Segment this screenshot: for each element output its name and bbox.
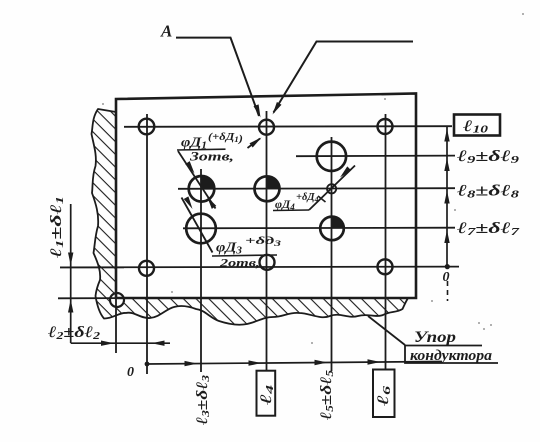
- column line C4 x=331.5: [331, 137, 333, 371]
- right dim line: [446, 127, 448, 267]
- left edge extension: [115, 298, 117, 353]
- callout D4 text: [273, 192, 319, 212]
- bushing hole B1 (D1): [189, 176, 215, 202]
- upor leader: [368, 316, 405, 345]
- svg-text:ℓ7±δℓ7: ℓ7±δℓ7: [456, 220, 520, 238]
- leader A: [176, 38, 259, 116]
- callout D3 text: [212, 235, 281, 270]
- callout D1 text: [177, 131, 243, 164]
- row line R2 (hole D y=156): [296, 155, 455, 158]
- label l5 (rotated): [318, 369, 336, 421]
- base line extension left: [58, 297, 116, 299]
- row line R3 (y=188.5): [178, 187, 455, 190]
- hole bottom-right: [378, 259, 393, 274]
- corner relief hole: [110, 293, 124, 307]
- column line C3 x=266.5: [266, 111, 268, 370]
- svg-text:A: A: [160, 22, 172, 41]
- hole bottom-left: [139, 261, 154, 276]
- leader right: [274, 42, 414, 113]
- row line R1 (top holes y=126.5): [124, 125, 452, 128]
- svg-text:0: 0: [127, 365, 134, 380]
- svg-text:ℓ2±δℓ2: ℓ2±δℓ2: [47, 324, 101, 342]
- row line R5 (bottom holes y=267): [60, 266, 459, 269]
- bottom dim line: [147, 362, 443, 365]
- right dim arrow: [444, 158, 449, 171]
- bushing hole B3 (D1): [320, 217, 344, 241]
- row line R4 (y=228): [183, 227, 455, 230]
- bottom origin dot: [145, 362, 150, 367]
- origin dot right: [445, 264, 450, 269]
- callout D3 leader: [182, 198, 213, 253]
- bottom arrow to C2: [185, 361, 198, 366]
- small arrow below datum hole: [248, 139, 261, 149]
- svg-text:кондуктора: кондуктора: [410, 348, 493, 364]
- l2 dim line: [71, 342, 170, 344]
- upor bracket: [405, 346, 498, 364]
- svg-text:ℓ1±δℓ1: ℓ1±δℓ1: [48, 196, 66, 259]
- upor text: [410, 329, 493, 364]
- hole bottom-middle: [260, 255, 275, 270]
- right dim arrow: [444, 230, 449, 243]
- l2 arrow right: [101, 341, 114, 346]
- label l2: [47, 324, 101, 342]
- l1 row extension: [60, 266, 124, 268]
- bottom arrow to C3: [249, 360, 262, 365]
- l1 dim line: [70, 204, 72, 343]
- bushing hole B2 (D1): [255, 176, 280, 201]
- l10 box: [454, 115, 500, 136]
- bottom arrow to C5: [368, 359, 381, 364]
- svg-text:ℓ9±δℓ9: ℓ9±δℓ9: [456, 148, 520, 166]
- l6 box: [373, 370, 395, 418]
- svg-text:Упор: Упор: [414, 329, 456, 346]
- small hole S4 (D4): [327, 184, 336, 193]
- large hole G1 (D3): [186, 214, 216, 244]
- l1 arrow down: [68, 253, 73, 266]
- hole top-middle (datum A): [259, 120, 274, 135]
- column line C2 x=201: [200, 169, 202, 372]
- column line C5 x=385.5: [385, 114, 387, 370]
- svg-text:ℓ3±δℓ3: ℓ3±δℓ3: [194, 374, 212, 426]
- l1 arrow up: [68, 300, 73, 313]
- hole top-right: [378, 119, 393, 134]
- jig plate outline: [116, 94, 416, 299]
- svg-text:3отв,: 3отв,: [189, 150, 234, 164]
- hole top-left: [139, 119, 155, 135]
- label l1 (rotated): [48, 196, 66, 259]
- right dim dashed continuation: [447, 281, 449, 301]
- scan speckles: [102, 103, 104, 105]
- hatched stop surfaces (L-shaped: left band + bottom band): [92, 109, 409, 325]
- svg-text:2отв,: 2отв,: [219, 256, 260, 270]
- column line C1 x=147: [146, 114, 148, 374]
- bottom arrow to C4: [315, 360, 328, 365]
- label l3 (rotated): [194, 374, 212, 426]
- large hole G2 (row2): [317, 142, 346, 171]
- right dim arrow: [444, 191, 449, 204]
- svg-text:0: 0: [443, 270, 450, 285]
- callout D1 leader: [178, 151, 216, 209]
- l4 box: [257, 371, 276, 416]
- right dim arrow: [444, 129, 449, 142]
- callout D4 leader: [309, 166, 355, 211]
- l2 arrow left: [152, 341, 165, 346]
- svg-text:ℓ8±δℓ8: ℓ8±δℓ8: [456, 183, 520, 201]
- svg-text:ℓ5±δℓ5: ℓ5±δℓ5: [318, 369, 336, 421]
